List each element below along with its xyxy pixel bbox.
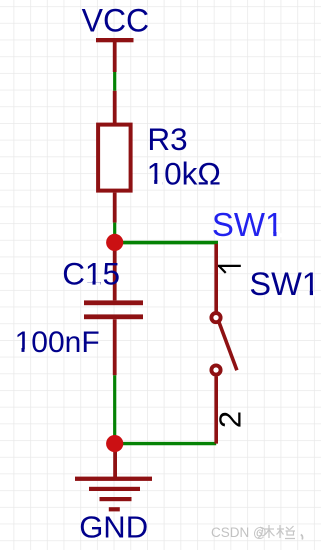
svg-text:10kΩ: 10kΩ: [147, 155, 221, 191]
watermark comma: [301, 535, 303, 540]
ground stem: [113, 444, 117, 477]
svg-text:GND: GND: [79, 509, 148, 544]
wire: [115, 241, 218, 245]
wire: [113, 375, 116, 443]
junction node A: [106, 234, 123, 251]
power port VCC bar: [96, 38, 134, 42]
ground bar 1: [75, 477, 152, 481]
capacitor C15 pin 1: [113, 242, 117, 300]
pin number 1: [218, 266, 241, 273]
capacitor C15 plate 1: [84, 300, 143, 305]
svg-text:VCC: VCC: [82, 3, 150, 39]
wire: [115, 442, 217, 445]
svg-text:C15: C15: [62, 256, 120, 292]
switch SW1 lever: [219, 321, 237, 370]
resistor R3 body: [98, 125, 131, 191]
serif patch SW1 bottom digit1: [304, 292, 319, 296]
wire: [113, 223, 116, 243]
watermark glyph mu: [258, 525, 275, 538]
svg-text:100nF: 100nF: [15, 326, 100, 359]
svg-text:R3: R3: [147, 121, 187, 157]
ground bar 2: [89, 487, 140, 491]
serif patch 100nF digit1: [16, 349, 30, 353]
wire: [113, 72, 116, 91]
serif patch SW1 top digit1: [267, 233, 283, 237]
capacitor C15 plate 2: [84, 314, 143, 319]
watermark glyph cheng: [277, 525, 296, 539]
serif patch 10k digit1: [148, 181, 163, 185]
switch SW1 contact circle bottom: [211, 365, 220, 374]
power port VCC stem: [113, 40, 117, 72]
switch SW1 contact circle top: [211, 313, 220, 322]
ground bar 4: [109, 507, 120, 511]
capacitor C15 pin 2: [113, 319, 117, 375]
switch SW1 pin 2: [214, 376, 218, 443]
svg-text:SW1: SW1: [249, 266, 319, 302]
serif patch C15 digit1: [87, 282, 101, 286]
switch SW1 pin 1: [214, 244, 218, 312]
ground bar 3: [100, 497, 132, 501]
svg-text:SW1: SW1: [212, 206, 284, 243]
svg-text:2: 2: [213, 411, 248, 428]
resistor R3 pin 2: [113, 193, 117, 223]
resistor R3 pin 1: [113, 91, 117, 124]
junction node B: [106, 435, 123, 452]
